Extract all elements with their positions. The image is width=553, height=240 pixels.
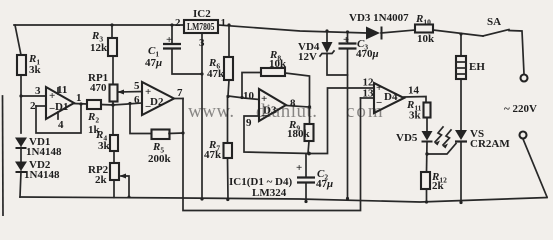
svg-text:D1: D1: [55, 101, 68, 113]
svg-text:+: +: [261, 93, 267, 105]
svg-text:47k: 47k: [204, 149, 222, 161]
svg-text:LM324: LM324: [252, 187, 287, 199]
svg-text:47k: 47k: [207, 68, 225, 80]
svg-text:VD3 1N4007: VD3 1N4007: [349, 12, 409, 24]
svg-text:47μ: 47μ: [145, 57, 162, 69]
svg-text:180k: 180k: [287, 128, 311, 140]
svg-text:470μ: 470μ: [356, 48, 379, 60]
svg-text:+: +: [166, 34, 172, 46]
svg-text:5: 5: [134, 80, 140, 92]
svg-text:7: 7: [177, 87, 183, 99]
svg-text:8: 8: [290, 98, 296, 110]
svg-text:3: 3: [35, 85, 41, 97]
svg-text:12V: 12V: [298, 51, 317, 63]
svg-text:6: 6: [134, 94, 140, 106]
svg-text:VD5: VD5: [396, 132, 418, 144]
svg-text:4: 4: [58, 119, 64, 131]
svg-text:−: −: [261, 110, 267, 122]
svg-text:−: −: [376, 97, 382, 109]
svg-text:3: 3: [199, 37, 205, 49]
svg-text:47μ: 47μ: [316, 178, 333, 190]
svg-text:3k: 3k: [409, 110, 422, 122]
svg-text:+: +: [343, 34, 349, 46]
svg-text:3k: 3k: [29, 64, 42, 76]
svg-text:2k: 2k: [432, 180, 445, 192]
svg-text:2: 2: [30, 100, 36, 112]
svg-text:10k: 10k: [269, 58, 287, 70]
svg-text:SA: SA: [487, 16, 501, 28]
svg-text:+: +: [376, 82, 382, 94]
svg-text:1N4148: 1N4148: [26, 146, 62, 158]
svg-text:1: 1: [221, 17, 227, 29]
svg-text:200k: 200k: [148, 153, 172, 165]
svg-text:2: 2: [175, 17, 181, 29]
svg-text:LM7805: LM7805: [187, 21, 215, 33]
svg-text:1: 1: [76, 92, 82, 104]
svg-text:3k: 3k: [98, 140, 111, 152]
svg-text:+: +: [296, 162, 302, 174]
svg-text:12k: 12k: [90, 42, 108, 54]
svg-text:2k: 2k: [95, 174, 108, 186]
svg-text:−: −: [145, 101, 151, 113]
svg-text:+: +: [145, 86, 151, 98]
svg-text:D2: D2: [150, 96, 164, 108]
svg-text:~ 220V: ~ 220V: [504, 103, 537, 115]
svg-text:+: +: [49, 90, 55, 102]
svg-text:470: 470: [90, 82, 107, 94]
svg-text:9: 9: [246, 117, 252, 129]
svg-text:IC2: IC2: [193, 8, 211, 20]
svg-text:13: 13: [363, 88, 375, 100]
svg-text:1N4148: 1N4148: [24, 169, 60, 181]
svg-text:10: 10: [243, 90, 255, 102]
svg-text:−: −: [49, 103, 55, 115]
svg-text:CR2AM: CR2AM: [470, 138, 510, 150]
svg-text:14: 14: [408, 85, 420, 97]
svg-text:10k: 10k: [417, 33, 435, 45]
svg-text:EH: EH: [469, 61, 485, 73]
svg-text:D4: D4: [384, 91, 398, 103]
